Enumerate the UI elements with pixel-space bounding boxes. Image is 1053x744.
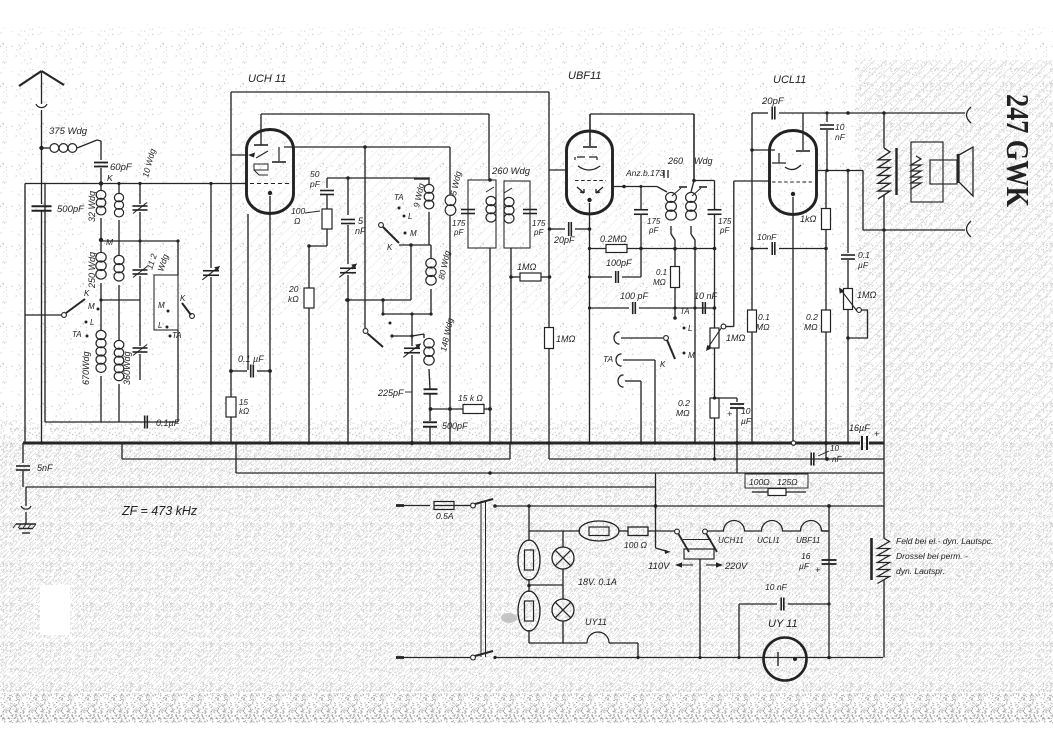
wire x=695 IFT2 to bus — [694, 249, 696, 443]
svg-text:TA: TA — [680, 307, 690, 316]
svg-text:MΩ: MΩ — [676, 408, 690, 418]
wire row y300 left — [101, 299, 140, 301]
svg-text:TA: TA — [72, 330, 82, 339]
wire speaker bottom y=230 — [863, 229, 965, 231]
capacitor 10nF (UCL top) — [826, 113, 828, 122]
wire x=641 cap drop — [640, 187, 642, 210]
svg-text:1kΩ: 1kΩ — [800, 214, 817, 224]
svg-text:UBF11: UBF11 — [796, 536, 820, 545]
wire bus row3 — [236, 472, 884, 474]
capacitor 0.1uF (tone) — [847, 171, 849, 254]
wire inner top y=114 — [261, 113, 489, 115]
wire top line y=113 — [752, 112, 768, 114]
svg-text:K: K — [180, 294, 186, 303]
svg-text:15: 15 — [239, 398, 248, 407]
svg-text:100: 100 — [291, 206, 305, 216]
label 220V — [706, 564, 722, 566]
wire heater line y=506 — [495, 505, 884, 507]
svg-text:5nF: 5nF — [37, 463, 53, 473]
svg-text:UCH 11: UCH 11 — [248, 73, 286, 85]
UCL11 cathode — [791, 192, 795, 196]
trimmer capacitor (250Wdg) — [139, 241, 141, 268]
svg-text:K: K — [84, 289, 90, 298]
svg-text:0.1: 0.1 — [858, 250, 870, 260]
svg-text:0.5A: 0.5A — [436, 511, 454, 521]
wire UCH triode grid exit y=147 — [284, 146, 450, 148]
wire riser x655 selector feed — [655, 473, 657, 548]
wire x=411 down — [410, 245, 412, 300]
svg-text:pF: pF — [648, 226, 659, 235]
wire IFT1 to bus — [489, 248, 491, 443]
svg-text:+: + — [727, 409, 732, 419]
svg-text:M: M — [158, 301, 165, 310]
UCH11 internals — [254, 144, 268, 146]
svg-text:32 Wdg: 32 Wdg — [87, 191, 97, 222]
svg-text:125Ω: 125Ω — [777, 477, 798, 487]
wire pot wiper to UCL grid — [726, 326, 734, 328]
svg-text:MΩ: MΩ — [804, 322, 818, 332]
gray smudge — [501, 613, 517, 623]
speaker magnet — [930, 160, 957, 184]
switch osc circle — [363, 329, 368, 334]
svg-text:15 k Ω: 15 k Ω — [458, 393, 483, 403]
trimmer capacitor (670Wdg) — [139, 300, 141, 346]
wire box2 feed — [177, 241, 179, 275]
svg-text:110V: 110V — [648, 561, 671, 572]
svg-text:pF: pF — [719, 226, 730, 235]
resistor 1M (x549) — [545, 328, 554, 349]
voltage selector — [675, 529, 680, 534]
svg-text:220V: 220V — [724, 561, 749, 572]
svg-text:Wdg: Wdg — [694, 156, 713, 166]
wire box2 bottom — [177, 330, 179, 422]
trimmer capacitor (32Wdg) — [139, 184, 141, 205]
UCH11 cathode — [268, 191, 272, 195]
variable capacitor (osc tuning) — [340, 268, 356, 273]
capacitor 0.1uF (tuner) — [145, 416, 148, 429]
capacitor 60pF — [100, 141, 102, 160]
wire UCH box top y=92 — [231, 91, 549, 93]
svg-text:1MΩ: 1MΩ — [517, 262, 537, 272]
svg-text:M: M — [410, 229, 417, 238]
wire x=248 tube down — [247, 214, 249, 370]
potentiometer 1M (volume) — [714, 249, 716, 329]
svg-text:0.2: 0.2 — [678, 398, 690, 408]
capacitor 500pF (antenna) — [32, 206, 52, 211]
capacitor 5nF — [347, 178, 349, 215]
heater chain bumps — [707, 521, 829, 532]
capacitor 175pF IFT1-a — [461, 210, 475, 214]
variable capacitor (tuning 1) — [210, 184, 212, 269]
capacitor 175pF IFT1-b — [523, 210, 537, 214]
UBF11 internals — [583, 146, 597, 148]
svg-text:375 Wdg: 375 Wdg — [49, 126, 88, 137]
svg-text:500pF: 500pF — [442, 421, 468, 431]
wire x=752 down — [751, 113, 753, 443]
switch mains bottom — [471, 655, 476, 660]
capacitor 16uF (in bus) — [862, 436, 867, 450]
wire x=450 long osc — [449, 147, 451, 195]
svg-text:670Wdg: 670Wdg — [81, 351, 91, 385]
dial lamp tube 2 — [518, 591, 540, 631]
svg-text:µF: µF — [741, 416, 752, 426]
svg-text:16µF: 16µF — [849, 423, 870, 433]
node K — [99, 181, 103, 185]
speaker cone — [957, 154, 960, 183]
svg-text:500pF: 500pF — [57, 204, 85, 215]
svg-text:L: L — [408, 212, 412, 221]
inductor IFT1 secondary — [504, 197, 514, 223]
inductor IFT1 primary — [486, 196, 496, 222]
mains lead bottom — [396, 656, 404, 659]
svg-text:UBF11: UBF11 — [568, 70, 601, 82]
svg-text:0.1: 0.1 — [656, 268, 667, 277]
mains lead top — [396, 504, 404, 507]
wire right vertical x884 — [883, 230, 885, 538]
svg-text:Drossel bei perm. -: Drossel bei perm. - — [896, 551, 968, 561]
svg-text:20pF: 20pF — [553, 235, 575, 245]
capacitor 10nF (row2) — [811, 453, 814, 466]
capacitor 20pF (UBF) — [550, 228, 566, 230]
svg-text:10: 10 — [830, 444, 839, 453]
svg-text:TA: TA — [172, 331, 182, 340]
svg-text:100 pF: 100 pF — [620, 291, 649, 301]
svg-text:10: 10 — [741, 406, 751, 416]
wire x=511 down — [510, 248, 512, 443]
svg-text:50: 50 — [310, 169, 320, 179]
svg-text:260 Wdg: 260 Wdg — [491, 166, 531, 177]
svg-text:UCLI1: UCLI1 — [757, 536, 780, 545]
bottom scanner band — [0, 693, 1053, 723]
inductor IFT2 primary — [657, 187, 667, 193]
svg-text:MΩ: MΩ — [756, 322, 770, 332]
svg-text:L: L — [90, 318, 94, 327]
wire bottom line — [495, 657, 883, 659]
terminal bottom right — [967, 221, 972, 237]
wire 15k line y409 — [430, 408, 463, 410]
svg-text:M: M — [106, 237, 114, 247]
svg-text:Ω: Ω — [294, 216, 301, 226]
IFT1 left box — [468, 180, 496, 248]
wire lamp block feed — [528, 506, 530, 531]
svg-text:20: 20 — [288, 284, 299, 294]
dial lamp tube 1 — [518, 540, 540, 580]
wire bus row4 — [26, 486, 655, 488]
wire lamp bottom — [529, 642, 587, 644]
svg-text:10: 10 — [835, 122, 845, 132]
svg-text:nF: nF — [835, 132, 846, 142]
svg-text:K: K — [660, 360, 666, 369]
inductor IFT2 secondary — [693, 114, 695, 181]
svg-text:+: + — [815, 565, 820, 575]
barretter lamp — [579, 521, 619, 541]
wire bottom 0.1uF line — [45, 421, 178, 423]
svg-text:TA: TA — [603, 354, 614, 364]
band switch left — [62, 313, 67, 318]
ground symbol — [25, 487, 27, 506]
wire row y=314 — [383, 313, 431, 315]
svg-text:UY11: UY11 — [585, 617, 607, 627]
terminal top right — [967, 107, 972, 123]
wire UCH box left x=231 — [230, 92, 232, 443]
wire UBF box top — [590, 113, 694, 115]
svg-text:60pF: 60pF — [110, 162, 133, 173]
lamp cross 1 — [552, 547, 574, 569]
potentiometer 1M (tone) — [844, 289, 853, 310]
wire row y=336 — [392, 335, 412, 337]
capacitor 5nF (mains) — [22, 443, 24, 463]
svg-text:M: M — [688, 351, 695, 360]
antenna — [19, 71, 42, 86]
wire UCL anode — [816, 170, 863, 172]
wire tone pot loop — [848, 310, 868, 338]
UBF11 cathode — [587, 198, 591, 202]
svg-text:1MΩ: 1MΩ — [556, 334, 576, 344]
svg-text:Feld bei el.- dyn. Lautspc.: Feld bei el.- dyn. Lautspc. — [896, 536, 993, 546]
svg-text:kΩ: kΩ — [239, 407, 249, 416]
resistor 100 Ohm (mains) — [619, 530, 628, 532]
switch phono — [664, 336, 669, 341]
UBF grid stub — [549, 169, 567, 171]
capacitor 500pF (osc) — [423, 422, 437, 427]
band switch box 2 — [154, 275, 178, 330]
speaker field core bar — [895, 148, 897, 195]
svg-text:UCL11: UCL11 — [773, 74, 806, 86]
wire x=829 — [828, 506, 830, 658]
wire grid line y=183 — [25, 183, 247, 185]
UCL11 internals — [802, 113, 804, 150]
svg-text:L: L — [158, 321, 162, 330]
wire x=826 down — [825, 249, 827, 311]
output transformer box — [911, 142, 943, 202]
capacitor 10uF electrolytic — [715, 397, 738, 399]
switch mains top — [471, 503, 476, 508]
wire x=365 osc grid — [364, 147, 366, 328]
capacitor 175pF IFT2-b — [694, 180, 715, 182]
variable capacitor (osc padder) — [404, 348, 420, 353]
svg-text:TA: TA — [394, 193, 404, 202]
node 100ohm bottom — [307, 244, 311, 248]
wire inner box x=45 — [44, 184, 46, 423]
svg-text:16: 16 — [801, 551, 811, 561]
svg-text:225pF: 225pF — [377, 388, 404, 398]
svg-text:UCH11: UCH11 — [718, 536, 744, 545]
resistor 15kOhm (bottom left) — [226, 397, 236, 417]
svg-text:MΩ: MΩ — [653, 278, 666, 287]
svg-text:260: 260 — [667, 156, 683, 166]
wire switch to coil y=245 — [399, 244, 431, 246]
svg-text:0.1 µF: 0.1 µF — [238, 354, 264, 364]
svg-text:100 Ω: 100 Ω — [624, 540, 648, 550]
lamp cross 2 — [562, 585, 564, 599]
wire bus row2 left — [122, 458, 510, 460]
svg-text:ZF = 473 kHz: ZF = 473 kHz — [121, 504, 198, 518]
wire y=178 50pF line — [327, 177, 430, 179]
wire left box x=25 — [24, 184, 26, 444]
wire row y=300 — [347, 299, 411, 301]
jack TA 1 — [614, 332, 618, 344]
capacitor 175pF IFT2-a — [634, 210, 648, 215]
switch linkage — [480, 501, 482, 657]
wire main ground bus — [23, 442, 860, 445]
svg-text:K: K — [107, 173, 113, 183]
svg-text:0.1µF: 0.1µF — [156, 418, 180, 428]
svg-text:175: 175 — [718, 217, 732, 226]
svg-text:L: L — [688, 324, 692, 333]
field choke — [870, 538, 873, 580]
svg-text:+: + — [874, 429, 879, 439]
svg-text:247 GWK: 247 GWK — [1000, 94, 1036, 207]
svg-text:0.2MΩ: 0.2MΩ — [600, 234, 627, 244]
svg-text:UY 11: UY 11 — [768, 618, 798, 630]
svg-text:10 nF: 10 nF — [765, 582, 788, 592]
wire x=309 down — [308, 246, 310, 288]
output transformer winding — [911, 156, 921, 189]
svg-text:pF: pF — [309, 179, 321, 189]
svg-text:pF: pF — [453, 228, 464, 237]
node M — [99, 238, 103, 242]
svg-text:175: 175 — [647, 217, 661, 226]
svg-text:Anz.b.173: Anz.b.173 — [625, 168, 665, 178]
white patch lower left — [40, 585, 70, 635]
svg-text:pF: pF — [533, 228, 544, 237]
svg-text:µF: µF — [858, 260, 869, 270]
resistor 1kOhm — [825, 171, 827, 210]
wire bus row2 right — [549, 458, 884, 460]
svg-text:18V. 0.1A: 18V. 0.1A — [578, 577, 617, 587]
speaker field resistor — [883, 113, 885, 148]
UBF diode line y=187 — [612, 186, 657, 188]
svg-text:dyn. Lautspr.: dyn. Lautspr. — [896, 566, 945, 576]
wire x549 long — [548, 92, 550, 443]
svg-text:10nF: 10nF — [757, 232, 777, 242]
svg-text:175: 175 — [532, 219, 546, 228]
wire x=412 down — [411, 314, 413, 346]
svg-text:100pF: 100pF — [606, 258, 632, 268]
IFT1 right box — [504, 181, 530, 248]
resistor 100/125 Ohm — [745, 474, 808, 488]
svg-text:kΩ: kΩ — [288, 294, 299, 304]
node K antenna tap — [39, 146, 43, 150]
svg-text:0.2: 0.2 — [806, 312, 818, 322]
switch mid lever — [379, 223, 384, 228]
svg-text:K: K — [387, 243, 393, 252]
wire M row — [101, 240, 178, 242]
svg-text:1MΩ: 1MΩ — [726, 333, 746, 343]
svg-text:M: M — [88, 302, 95, 311]
fuse 0.5A — [434, 502, 454, 510]
jack TA 3 — [618, 375, 622, 387]
svg-text:1MΩ: 1MΩ — [857, 290, 877, 300]
svg-text:100Ω: 100Ω — [749, 477, 770, 487]
svg-text:0.1: 0.1 — [758, 312, 770, 322]
svg-text:µF: µF — [799, 561, 810, 571]
svg-text:175: 175 — [452, 219, 466, 228]
wire lamp block — [528, 531, 530, 541]
svg-text:nF: nF — [832, 455, 842, 464]
svg-text:20pF: 20pF — [761, 96, 785, 107]
